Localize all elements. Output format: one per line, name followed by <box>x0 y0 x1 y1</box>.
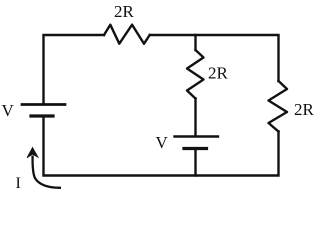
battery V2 short plate (middle) <box>184 147 207 150</box>
wire: middle branch top stub <box>194 35 196 50</box>
wire: top wire right segment + right vertical down to resistor R3 <box>150 35 279 81</box>
battery V1 long plate (left) <box>22 103 65 106</box>
svg-text:2R: 2R <box>294 100 315 119</box>
wire: right vertical below R3 + bottom wire + left vertical up to battery V1 bottom plate <box>44 117 279 175</box>
svg-text:V: V <box>2 101 15 120</box>
wire: middle branch between R2 and battery V2 <box>194 99 196 136</box>
current arrow I (head) <box>27 148 38 158</box>
wire: middle branch bottom stub <box>194 150 196 176</box>
svg-text:2R: 2R <box>114 2 135 21</box>
resistor R2 (middle, 2R) zigzag <box>187 50 204 99</box>
svg-text:V: V <box>156 133 169 152</box>
wire: left vertical (top-left corner to battery V1 top plate) + top wire left segment <box>44 35 105 103</box>
resistor R1 (top, 2R) zigzag <box>104 25 150 44</box>
battery V1 short plate (left) <box>31 114 53 117</box>
current arrow I (curved shaft) <box>33 156 61 188</box>
resistor R3 (right, 2R) zigzag <box>269 81 288 132</box>
battery V2 long plate (middle) <box>175 135 219 137</box>
svg-text:I: I <box>16 175 21 192</box>
svg-text:2R: 2R <box>208 64 229 83</box>
